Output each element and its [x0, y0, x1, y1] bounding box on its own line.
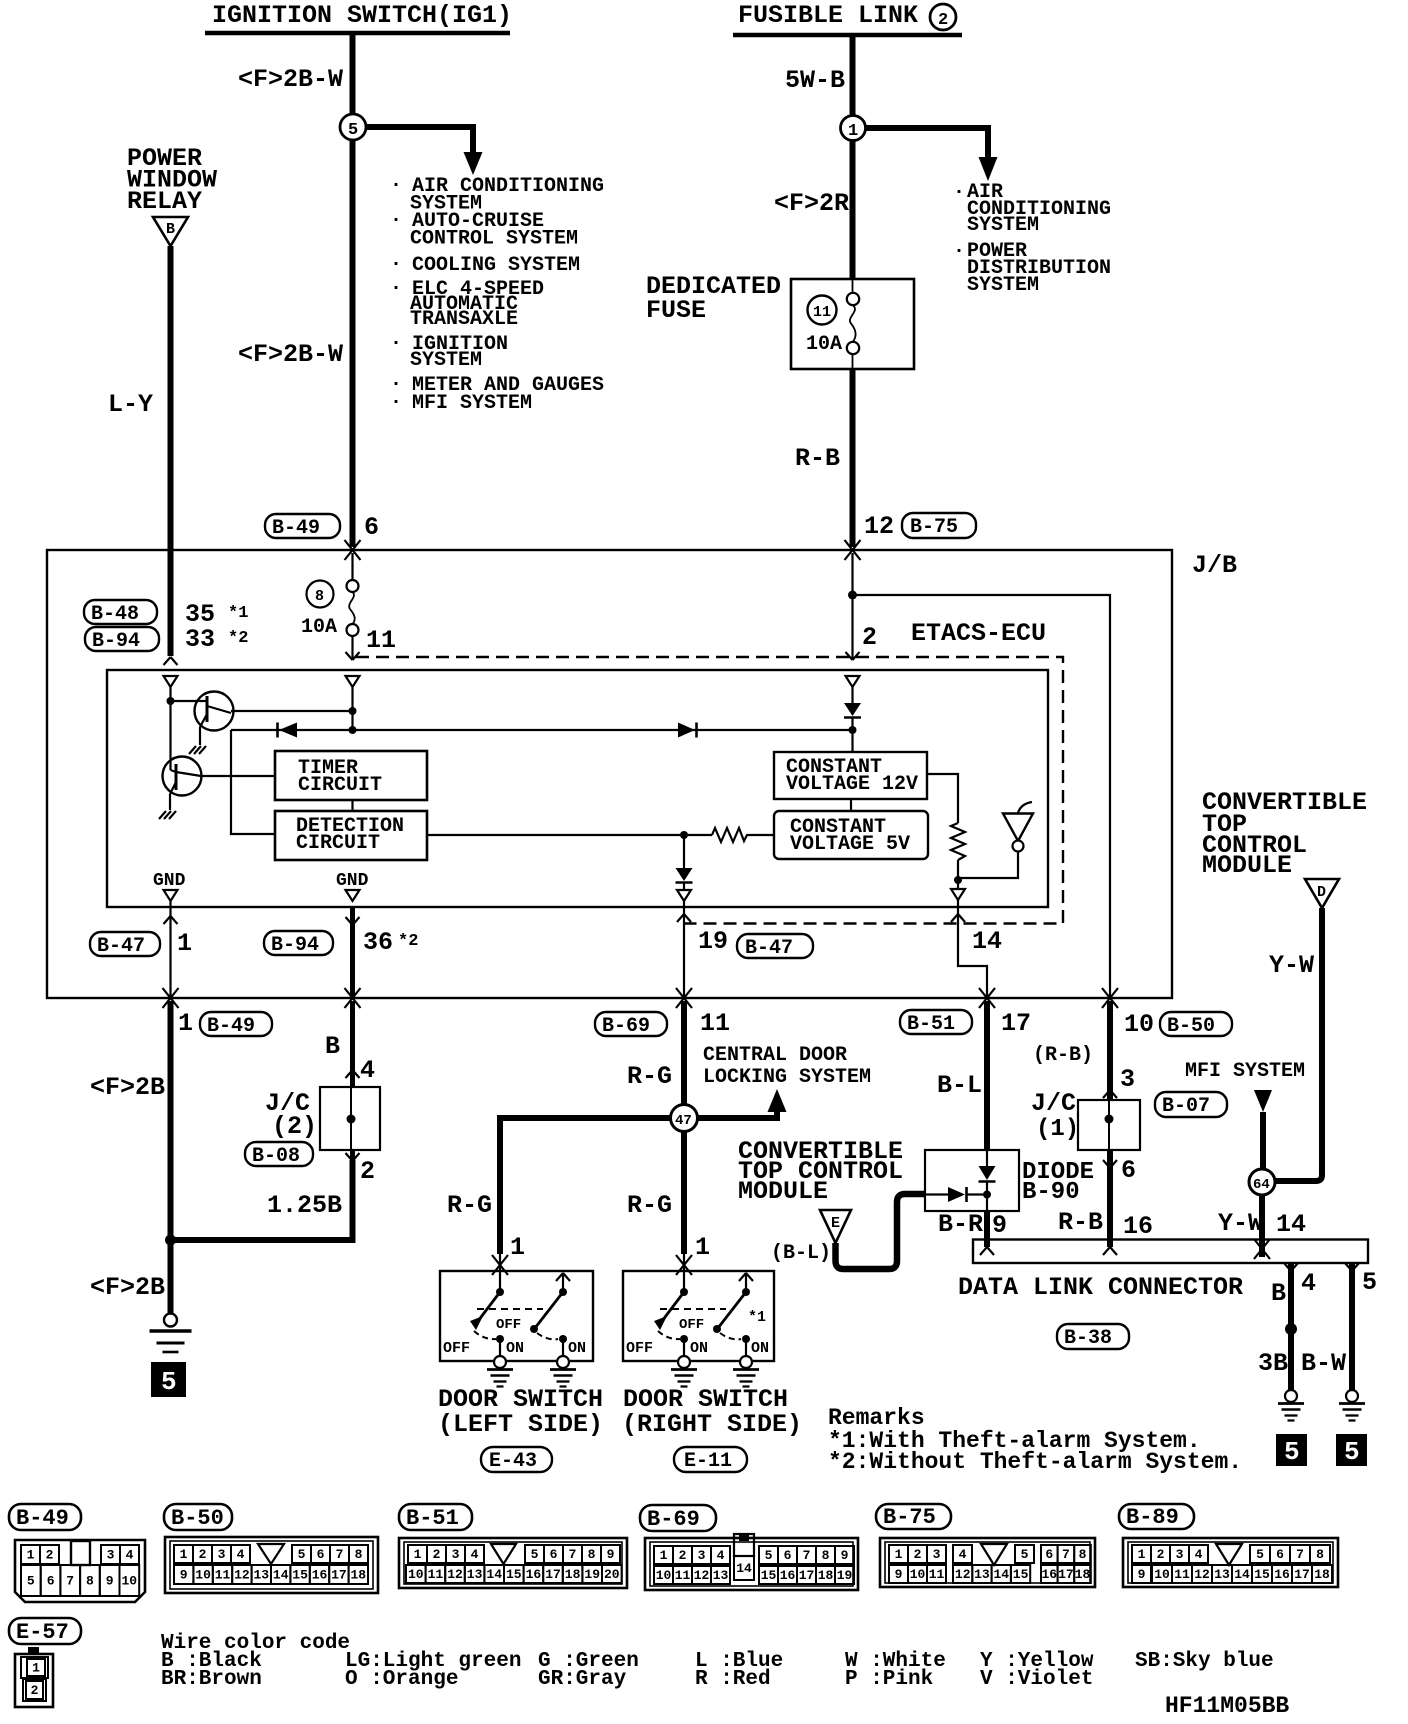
svg-text:16: 16 — [1123, 1212, 1153, 1241]
svg-text:11: 11 — [700, 1009, 730, 1038]
svg-text:GR:Gray: GR:Gray — [538, 1668, 627, 1691]
svg-text:3: 3 — [218, 1547, 226, 1562]
svg-text:4: 4 — [126, 1548, 134, 1563]
svg-text:3: 3 — [698, 1548, 706, 1563]
svg-text:17: 17 — [1001, 1009, 1031, 1038]
svg-text:ON: ON — [751, 1340, 769, 1357]
svg-text:4: 4 — [1301, 1269, 1316, 1298]
wire Y-W from D module to node 64 — [1275, 908, 1322, 1181]
svg-text:OFF: OFF — [443, 1340, 470, 1357]
ETACS-ECU dashed boundary — [356, 657, 1063, 924]
svg-text:12: 12 — [955, 1567, 971, 1582]
svg-text:MODULE: MODULE — [738, 1177, 828, 1206]
svg-text:5: 5 — [298, 1547, 306, 1562]
svg-text:1: 1 — [177, 929, 192, 958]
svg-text:1: 1 — [895, 1547, 903, 1562]
svg-text:VOLTAGE 12V: VOLTAGE 12V — [786, 773, 918, 796]
connector B-69 pinout — [645, 1538, 858, 1590]
svg-text:5: 5 — [1344, 1437, 1360, 1467]
svg-text:3: 3 — [1120, 1065, 1135, 1094]
connector B-89 pinout — [1123, 1538, 1338, 1587]
svg-text:<F>2B: <F>2B — [90, 1073, 165, 1102]
svg-text:GND: GND — [153, 871, 186, 891]
svg-text:2: 2 — [914, 1547, 922, 1562]
svg-text:L-Y: L-Y — [108, 390, 153, 419]
svg-text:5: 5 — [348, 121, 358, 140]
svg-text:10: 10 — [122, 1574, 138, 1589]
svg-text:7: 7 — [336, 1547, 344, 1562]
junction connector J/C(1) B-07 — [1078, 1100, 1140, 1150]
svg-text:B-W: B-W — [1301, 1349, 1346, 1378]
node 64: circled junction — [1249, 1169, 1275, 1195]
svg-text:10: 10 — [910, 1567, 926, 1582]
pin 17 (B-51) labels — [900, 1010, 972, 1034]
svg-text:B-51: B-51 — [907, 1013, 955, 1036]
svg-text:2: 2 — [938, 11, 948, 30]
svg-text:E-57: E-57 — [16, 1620, 69, 1645]
ECU pin triangles — [164, 676, 178, 687]
svg-text:1: 1 — [1138, 1547, 1146, 1562]
wire Y-W from node 64 to DLC pin 14 — [1259, 1195, 1265, 1257]
svg-text:B-50: B-50 — [171, 1506, 224, 1531]
wire R-B below fuse — [850, 369, 856, 547]
svg-text:11: 11 — [929, 1567, 945, 1582]
connector B-50 pinout — [165, 1537, 378, 1593]
svg-text:13: 13 — [1214, 1567, 1230, 1582]
wire: branch right to pin 10 — [853, 595, 1111, 997]
svg-text:<F>2B-W: <F>2B-W — [238, 65, 343, 94]
svg-text:*2: *2 — [398, 932, 418, 951]
svg-text:8: 8 — [822, 1548, 830, 1563]
svg-text:3: 3 — [107, 1548, 115, 1563]
wire: branch from node 1 to systems arrow — [865, 128, 988, 158]
svg-text:HF11M05BB: HF11M05BB — [1165, 1693, 1289, 1719]
svg-text:VOLTAGE 5V: VOLTAGE 5V — [790, 833, 910, 856]
svg-text:(LEFT SIDE): (LEFT SIDE) — [438, 1410, 603, 1439]
svg-text:MFI SYSTEM: MFI SYSTEM — [412, 392, 532, 415]
svg-text:(RIGHT SIDE): (RIGHT SIDE) — [622, 1410, 802, 1439]
diode to ground pin 19 — [683, 835, 685, 868]
svg-text:3: 3 — [1176, 1547, 1184, 1562]
svg-text:·: · — [390, 174, 402, 197]
svg-text:11: 11 — [366, 626, 396, 655]
svg-text:FUSIBLE LINK: FUSIBLE LINK — [738, 1, 918, 30]
svg-text:5: 5 — [1284, 1437, 1300, 1467]
svg-text:8: 8 — [588, 1547, 596, 1562]
ground ref 5 (black square) — [151, 1362, 186, 1397]
svg-text:6: 6 — [1045, 1547, 1053, 1562]
wire: fuse 8 to ECU pin 11 — [351, 636, 353, 660]
svg-text:9: 9 — [1138, 1567, 1146, 1582]
resistor (vertical) — [951, 823, 965, 860]
svg-text:B-51: B-51 — [406, 1506, 459, 1531]
wire R-B to DLC pin 16 — [1107, 1150, 1113, 1247]
svg-text:18: 18 — [351, 1568, 367, 1583]
svg-text:B-47: B-47 — [97, 935, 145, 958]
svg-text:1: 1 — [695, 1233, 710, 1262]
svg-text:5: 5 — [1021, 1547, 1029, 1562]
wire B to J/C(2) — [350, 1001, 355, 1087]
fuse 8 10A inside J/B — [307, 581, 334, 608]
svg-text:CONTROL SYSTEM: CONTROL SYSTEM — [410, 228, 578, 251]
ground (Q1 emitter) — [189, 746, 206, 754]
svg-text:9: 9 — [106, 1574, 114, 1589]
diode (vertical, pointing down) — [986, 1150, 988, 1166]
svg-text:·: · — [390, 332, 402, 355]
earth ground (F)2B — [150, 1314, 192, 1353]
svg-text:SYSTEM: SYSTEM — [967, 214, 1039, 237]
svg-text:SYSTEM: SYSTEM — [410, 349, 482, 372]
wire linking CV boxes — [850, 799, 852, 811]
svg-text:B: B — [166, 221, 175, 238]
wire MFI to node 64 — [1260, 1112, 1266, 1169]
transistor Q1 — [195, 692, 234, 731]
svg-text:(R-B): (R-B) — [1033, 1044, 1093, 1067]
svg-text:14: 14 — [1276, 1210, 1306, 1239]
ECU pin 19 exit — [683, 901, 685, 997]
earth ground (3B) — [1278, 1390, 1304, 1421]
svg-text:8: 8 — [1079, 1547, 1087, 1562]
wire: title underline bar — [733, 33, 962, 38]
wire: 12V out to resistor — [927, 774, 958, 823]
svg-text:1: 1 — [180, 1547, 188, 1562]
earth ground switch 1L — [487, 1356, 513, 1387]
connector label B-49 — [9, 1504, 81, 1530]
svg-text:1: 1 — [510, 1233, 525, 1262]
svg-text:5W-B: 5W-B — [785, 66, 845, 95]
wire: detection to constant voltage 5V with resistor — [427, 834, 712, 836]
wire: down to right door switch — [681, 1131, 687, 1254]
constant voltage 5V box — [774, 811, 928, 859]
svg-text:13: 13 — [254, 1568, 270, 1583]
connector B-75 pinout — [880, 1538, 1095, 1587]
svg-text:20: 20 — [604, 1567, 620, 1582]
svg-text:OFF: OFF — [679, 1317, 704, 1333]
svg-text:12: 12 — [234, 1568, 250, 1583]
svg-text:4: 4 — [471, 1547, 479, 1562]
svg-text:13: 13 — [974, 1567, 990, 1582]
connector label E-57 — [9, 1618, 81, 1644]
svg-text:19: 19 — [698, 927, 728, 956]
wire: horizontal bus y=730 — [231, 729, 853, 731]
fuse element 10A — [847, 293, 859, 305]
diode box B-90 — [925, 1150, 1019, 1211]
svg-text:3B: 3B — [1258, 1349, 1288, 1378]
transistor/switch symbol at ECU right — [1003, 814, 1033, 842]
svg-text:5: 5 — [1256, 1547, 1264, 1562]
svg-text:R-B: R-B — [795, 444, 840, 473]
connector B: triangle from power window relay — [153, 217, 188, 246]
earth ground switch 1R — [671, 1356, 697, 1387]
svg-text:B-50: B-50 — [1167, 1015, 1215, 1038]
svg-text:9: 9 — [841, 1548, 849, 1563]
earth ground switch 2L — [550, 1356, 576, 1387]
wire Q1 collector to pin 11 line — [231, 710, 353, 712]
svg-text:8: 8 — [315, 588, 324, 605]
connector end of relay wire — [164, 657, 178, 665]
svg-text:15: 15 — [1254, 1567, 1270, 1582]
connector B-48/B-94 labels for relay wire — [84, 600, 157, 624]
svg-text:2: 2 — [1157, 1547, 1165, 1562]
svg-text:SYSTEM: SYSTEM — [967, 274, 1039, 297]
svg-text:*2: *2 — [228, 629, 248, 648]
svg-text:6: 6 — [1276, 1547, 1284, 1562]
svg-text:B-L: B-L — [937, 1071, 982, 1100]
connector B-49 pinout — [15, 1540, 145, 1602]
svg-text:B-48: B-48 — [91, 603, 139, 626]
wire: branch arrow up to central door locking — [697, 1110, 777, 1118]
svg-text:OFF: OFF — [626, 1340, 653, 1357]
node: systems list (IG1) — [390, 174, 604, 415]
svg-text:B: B — [325, 1032, 340, 1061]
svg-text:12: 12 — [447, 1567, 463, 1582]
svg-text:6: 6 — [317, 1547, 325, 1562]
svg-text:3: 3 — [452, 1547, 460, 1562]
svg-text:·: · — [390, 209, 402, 232]
ECU pin 14 exit with jog — [958, 900, 987, 997]
svg-text:14: 14 — [736, 1561, 752, 1576]
switch 1R — [683, 1252, 685, 1292]
svg-text:R-G: R-G — [627, 1191, 672, 1220]
svg-text:LOCKING SYSTEM: LOCKING SYSTEM — [703, 1066, 871, 1089]
svg-text:<F>2B: <F>2B — [90, 1273, 165, 1302]
wire: pin 11 node down — [351, 687, 353, 730]
svg-text:·: · — [390, 253, 402, 276]
svg-text:B-07: B-07 — [1162, 1095, 1210, 1118]
constant voltage 12V box — [774, 752, 927, 799]
svg-text:Y-W: Y-W — [1269, 951, 1314, 980]
svg-text:2: 2 — [862, 623, 877, 652]
svg-text:1: 1 — [32, 1661, 40, 1676]
wire: pin 12 down, junction to pin 2 — [851, 553, 853, 660]
svg-text:11: 11 — [428, 1567, 444, 1582]
svg-text:OFF: OFF — [496, 1317, 521, 1333]
svg-text:19: 19 — [837, 1568, 853, 1583]
connector D triangle — [1305, 879, 1339, 908]
connector label B-75 — [876, 1504, 951, 1529]
svg-text:17: 17 — [1058, 1567, 1074, 1582]
svg-text:E-43: E-43 — [489, 1450, 537, 1473]
svg-text:18: 18 — [1075, 1567, 1091, 1582]
svg-text:14: 14 — [1234, 1567, 1250, 1582]
wire B-R to DLC pin 9 — [984, 1211, 990, 1247]
svg-text:11: 11 — [813, 304, 831, 321]
svg-text:17: 17 — [331, 1568, 347, 1583]
wire: title underline bar — [205, 31, 510, 36]
svg-text:B-47: B-47 — [745, 937, 793, 960]
svg-text:16: 16 — [1042, 1567, 1058, 1582]
svg-text:3: 3 — [933, 1547, 941, 1562]
switch 2R — [745, 1275, 747, 1292]
svg-text:E-11: E-11 — [684, 1450, 732, 1473]
svg-text:6: 6 — [47, 1574, 55, 1589]
svg-text:4: 4 — [959, 1547, 967, 1562]
svg-text:10: 10 — [1154, 1567, 1170, 1582]
svg-text:5: 5 — [1362, 1268, 1377, 1297]
svg-text:*1: *1 — [748, 1309, 766, 1326]
svg-text:10: 10 — [1124, 1010, 1154, 1039]
svg-text:1: 1 — [27, 1548, 35, 1563]
svg-text:2: 2 — [31, 1683, 39, 1698]
svg-text:2: 2 — [360, 1157, 375, 1186]
svg-text:16: 16 — [780, 1568, 796, 1583]
svg-text:11: 11 — [215, 1568, 231, 1583]
svg-text:ON: ON — [690, 1340, 708, 1357]
switch 1L — [499, 1252, 501, 1292]
svg-text:·: · — [953, 240, 965, 263]
svg-text:B-94: B-94 — [271, 934, 319, 957]
svg-text:1: 1 — [178, 1009, 193, 1038]
svg-text:4: 4 — [237, 1547, 245, 1562]
svg-text:12: 12 — [864, 512, 894, 541]
detection circuit box — [275, 811, 427, 860]
svg-text:B: B — [1271, 1279, 1286, 1308]
ground ref 5 squares — [1276, 1434, 1307, 1466]
svg-text:1: 1 — [660, 1548, 668, 1563]
svg-text:9: 9 — [895, 1567, 903, 1582]
svg-text:2: 2 — [433, 1547, 441, 1562]
wire: ignition feed (F)2B-W vertical — [350, 35, 356, 547]
svg-text:6: 6 — [784, 1548, 792, 1563]
node 1: circled junction — [841, 116, 866, 141]
wire Q2 collector to timer circuit — [201, 775, 275, 777]
svg-text:B-08: B-08 — [252, 1145, 300, 1168]
svg-text:10: 10 — [408, 1567, 424, 1582]
wire B-W to ground — [1349, 1263, 1355, 1390]
svg-text:<F>2B-W: <F>2B-W — [238, 340, 343, 369]
svg-text:11: 11 — [1174, 1567, 1190, 1582]
J/B bottom pin crossings — [163, 988, 179, 1008]
svg-text:18: 18 — [565, 1567, 581, 1582]
svg-text:B-69: B-69 — [602, 1015, 650, 1038]
svg-text:16: 16 — [312, 1568, 328, 1583]
svg-text:9: 9 — [992, 1211, 1007, 1240]
wire color code legend — [161, 1632, 1274, 1691]
svg-text:7: 7 — [569, 1547, 577, 1562]
svg-text:18: 18 — [1314, 1567, 1330, 1582]
svg-text:B-38: B-38 — [1064, 1327, 1112, 1350]
earth ground (B-W) — [1339, 1390, 1365, 1421]
svg-text:14: 14 — [994, 1567, 1010, 1582]
arrow to systems list — [464, 152, 483, 175]
node: systems list (fusible link) — [953, 181, 1111, 297]
connector B-51 pinout — [399, 1538, 627, 1588]
svg-text:B-94: B-94 — [92, 630, 140, 653]
svg-text:33: 33 — [185, 625, 215, 654]
wire B-L to diode B-90 — [984, 1001, 990, 1150]
ground (Q2 emitter) — [159, 811, 176, 819]
svg-text:R-B: R-B — [1058, 1208, 1103, 1237]
svg-text:IGNITION SWITCH(IG1): IGNITION SWITCH(IG1) — [212, 1, 512, 30]
svg-text:ON: ON — [506, 1340, 524, 1357]
connector E triangle — [820, 1210, 851, 1243]
ECU GND pin 36 exit — [350, 908, 355, 997]
svg-text:16: 16 — [526, 1567, 542, 1582]
connector E-57 pinout — [15, 1654, 53, 1707]
svg-text:B-75: B-75 — [883, 1505, 936, 1530]
diode (pointing right) on bus — [678, 723, 695, 738]
earth ground switch 2R — [733, 1356, 759, 1387]
svg-text:·: · — [390, 277, 402, 300]
svg-text:RELAY: RELAY — [127, 187, 202, 216]
connector label B-51 — [399, 1504, 472, 1530]
svg-text:GND: GND — [336, 871, 369, 891]
svg-text:·: · — [390, 391, 402, 414]
wire: branch from node 5 to systems arrow — [366, 127, 473, 153]
connector label B-69 — [640, 1505, 716, 1531]
svg-text:7: 7 — [1062, 1547, 1070, 1562]
svg-text:9: 9 — [180, 1568, 188, 1583]
svg-text:P :Pink: P :Pink — [845, 1668, 933, 1691]
svg-text:J/B: J/B — [1192, 551, 1237, 580]
svg-text:DATA LINK CONNECTOR: DATA LINK CONNECTOR — [958, 1273, 1243, 1302]
svg-text:4: 4 — [717, 1548, 725, 1563]
wire L-Y from relay down into J/B — [168, 246, 174, 656]
svg-text:6: 6 — [364, 513, 379, 542]
resistor (horizontal) — [712, 828, 774, 842]
svg-text:MODULE: MODULE — [1202, 851, 1292, 880]
switch 2L — [562, 1275, 564, 1292]
svg-text:1: 1 — [414, 1547, 422, 1562]
node 47: circled junction — [671, 1105, 698, 1132]
svg-text:4: 4 — [1195, 1547, 1203, 1562]
svg-text:2: 2 — [679, 1548, 687, 1563]
ECU internal circuit box — [107, 670, 1048, 907]
svg-text:V :Violet: V :Violet — [980, 1668, 1093, 1691]
svg-text:8: 8 — [86, 1574, 94, 1589]
data link connector strip B-38 — [973, 1240, 1368, 1264]
svg-text:15: 15 — [292, 1568, 308, 1583]
svg-text:B-90: B-90 — [1022, 1179, 1080, 1206]
diode (pointing left) on bus — [279, 723, 297, 738]
svg-text:14: 14 — [486, 1567, 502, 1582]
svg-text:5: 5 — [27, 1574, 35, 1589]
svg-text:5: 5 — [161, 1367, 177, 1397]
svg-text:14: 14 — [972, 927, 1002, 956]
svg-text:R-G: R-G — [447, 1191, 492, 1220]
ECU GND pin 1 exit — [169, 901, 171, 997]
svg-text:B-R: B-R — [938, 1210, 983, 1239]
svg-text:10A: 10A — [301, 616, 337, 639]
wire timer-detection link — [351, 800, 353, 811]
svg-text:6: 6 — [550, 1547, 558, 1562]
svg-text:*2:Without Theft-alarm System.: *2:Without Theft-alarm System. — [828, 1449, 1242, 1475]
svg-text:17: 17 — [799, 1568, 815, 1583]
svg-text:B-75: B-75 — [910, 516, 958, 539]
svg-text:9: 9 — [607, 1547, 615, 1562]
connector label B-50 — [164, 1504, 232, 1530]
wire: pin 6 down to fuse 8 — [351, 553, 353, 580]
svg-text:12: 12 — [694, 1568, 710, 1583]
svg-text:O :Orange: O :Orange — [345, 1668, 458, 1691]
wire 1.25B jumper — [171, 1160, 353, 1240]
junction block J/B box — [47, 550, 1172, 998]
door switch (right side) box — [623, 1271, 774, 1361]
svg-text:4: 4 — [360, 1056, 375, 1085]
arrow to systems list — [979, 157, 998, 181]
svg-text:12: 12 — [1194, 1567, 1210, 1582]
svg-text:(2): (2) — [272, 1112, 317, 1141]
svg-text:13: 13 — [713, 1568, 729, 1583]
svg-text:7: 7 — [803, 1548, 811, 1563]
svg-text:J/C: J/C — [1031, 1089, 1076, 1118]
svg-text:7: 7 — [1296, 1547, 1304, 1562]
svg-text:(1): (1) — [1036, 1116, 1079, 1143]
wire 5W-B vertical — [850, 37, 856, 280]
transistor Q2 — [163, 757, 202, 796]
svg-text:CIRCUIT: CIRCUIT — [296, 832, 380, 855]
svg-text:5: 5 — [765, 1548, 773, 1563]
